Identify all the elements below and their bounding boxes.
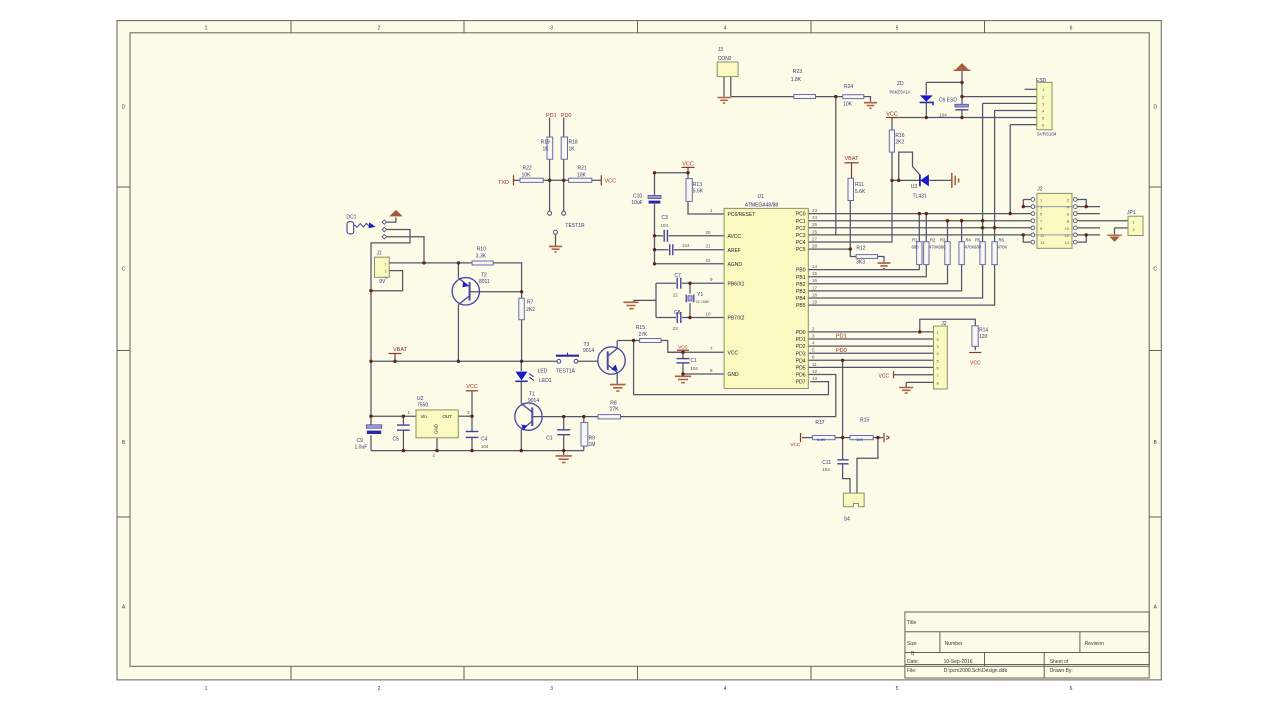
svg-text:1M: 1M [589,442,596,448]
svg-text:R14: R14 [979,328,988,334]
svg-text:R19: R19 [541,140,550,146]
svg-text:PB4: PB4 [796,296,806,302]
svg-text:3: 3 [385,276,387,280]
svg-text:32.768K: 32.768K [696,300,711,304]
svg-text:PD2: PD2 [796,344,806,350]
svg-text:C10: C10 [633,193,642,199]
svg-text:P6KE6V1A: P6KE6V1A [890,89,911,94]
svg-text:C9: C9 [357,438,364,444]
svg-text:AGND: AGND [728,262,743,268]
svg-text:17: 17 [812,285,818,290]
svg-text:14: 14 [1065,240,1070,245]
svg-text:C5: C5 [393,436,400,442]
svg-text:3K3: 3K3 [856,260,865,266]
svg-text:104: 104 [939,112,947,117]
svg-text:12: 12 [1065,233,1070,238]
svg-text:TEST1A: TEST1A [556,368,576,374]
svg-text:4: 4 [724,686,727,692]
svg-text:CON2: CON2 [718,56,732,62]
svg-text:PD7: PD7 [796,380,806,386]
svg-text:AVCC: AVCC [728,234,742,240]
svg-text:TEST1R: TEST1R [565,223,585,229]
svg-text:SVRS104: SVRS104 [1037,132,1057,137]
svg-text:R15: R15 [860,418,869,424]
svg-text:Y1: Y1 [697,292,703,298]
svg-text:U1: U1 [758,194,765,200]
svg-text:16: 16 [812,278,818,283]
svg-text:VCC: VCC [886,112,898,118]
svg-text:S4: S4 [844,516,850,522]
svg-text:R18: R18 [569,140,578,146]
svg-text:VBAT: VBAT [393,347,408,353]
svg-text:PB7/X2: PB7/X2 [728,316,745,322]
svg-text:GND: GND [434,423,439,434]
svg-text:PD6: PD6 [796,373,806,379]
svg-text:6: 6 [1070,686,1073,692]
svg-text:27K: 27K [610,407,620,413]
svg-text:VCC: VCC [682,162,694,168]
svg-text:PC4: PC4 [796,240,806,246]
svg-text:DC1: DC1 [346,214,356,220]
svg-text:Sheet of: Sheet of [1050,659,1069,665]
svg-text:VCC: VCC [678,344,688,349]
svg-text:15: 15 [812,271,818,276]
svg-text:5.6K: 5.6K [855,189,866,195]
svg-text:104: 104 [661,223,669,228]
svg-text:10uF: 10uF [631,200,642,206]
svg-text:14: 14 [812,264,818,269]
svg-text:13: 13 [1040,240,1045,245]
svg-text:22: 22 [673,292,679,297]
svg-text:D: D [122,105,126,111]
svg-text:104: 104 [481,444,489,449]
svg-text:R13: R13 [693,182,702,188]
svg-text:J2: J2 [941,321,947,327]
svg-text:R4: R4 [966,237,972,242]
svg-text:R21: R21 [578,166,587,172]
svg-text:25: 25 [812,222,818,227]
svg-text:1.8K: 1.8K [791,77,802,83]
svg-text:PB6/X1: PB6/X1 [728,281,745,287]
svg-text:Size: Size [907,641,917,647]
svg-text:PC5: PC5 [796,247,806,253]
svg-text:PD5: PD5 [796,366,806,372]
svg-text:R16: R16 [895,133,904,139]
svg-text:2K2: 2K2 [526,307,535,313]
svg-text:VCC: VCC [728,350,739,356]
svg-text:1: 1 [205,686,208,692]
svg-text:5.6K: 5.6K [693,189,704,195]
svg-text:10: 10 [706,312,712,317]
svg-text:R24: R24 [844,84,853,90]
svg-text:22: 22 [673,326,679,331]
svg-text:R23: R23 [793,69,802,75]
svg-text:LED: LED [538,368,548,374]
svg-text:TL431: TL431 [913,194,927,200]
svg-text:VCC: VCC [466,384,478,390]
svg-text:22: 22 [706,258,712,263]
svg-text:3.3K: 3.3K [476,254,487,260]
svg-text:18: 18 [812,292,818,297]
svg-text:D: D [1153,105,1157,111]
svg-text:1K: 1K [543,147,550,153]
svg-text:C1: C1 [690,358,697,364]
svg-text:R2: R2 [930,237,936,242]
svg-text:2K2: 2K2 [895,140,904,146]
svg-text:PC3: PC3 [796,233,806,239]
svg-text:VCC: VCC [605,179,617,185]
svg-text:4: 4 [724,26,727,32]
svg-text:ATMEGA48/88: ATMEGA48/88 [745,202,778,208]
svg-text:PC6/RESET: PC6/RESET [728,212,756,218]
svg-text:7550: 7550 [417,402,428,408]
svg-text:Drawn By:: Drawn By: [1050,668,1073,674]
svg-text:PC0: PC0 [796,212,806,218]
svg-text:PD1: PD1 [836,334,847,340]
svg-text:C1: C1 [546,436,553,442]
svg-text:ESD: ESD [1036,78,1047,84]
svg-text:8011: 8011 [479,279,490,285]
svg-text:10-Sep-2016: 10-Sep-2016 [944,659,973,665]
svg-text:C6 ESD: C6 ESD [939,97,957,103]
svg-text:Title: Title [907,620,916,626]
svg-text:21: 21 [706,244,712,249]
svg-text:470K: 470K [998,245,1008,250]
svg-text:10: 10 [1065,226,1070,231]
svg-text:PC2: PC2 [796,226,806,232]
svg-text:104: 104 [690,366,698,371]
svg-text:T1: T1 [529,392,535,398]
svg-text:R15: R15 [636,325,645,331]
svg-text:5: 5 [896,686,899,692]
svg-text:20: 20 [706,230,712,235]
svg-text:PD0: PD0 [796,330,806,336]
svg-text:2: 2 [378,686,381,692]
svg-text:3: 3 [550,26,553,32]
svg-text:10K: 10K [856,437,863,442]
svg-text:11: 11 [812,362,817,367]
svg-text:U2: U2 [417,396,424,402]
svg-text:104: 104 [822,467,830,472]
svg-text:PB2: PB2 [796,282,806,288]
svg-text:6: 6 [1070,26,1073,32]
svg-text:R6: R6 [999,237,1005,242]
svg-text:C4: C4 [481,436,488,442]
svg-text:C11: C11 [822,460,831,466]
svg-text:120: 120 [979,334,988,340]
svg-text:104: 104 [682,243,690,248]
svg-text:1K: 1K [569,147,576,153]
svg-text:3: 3 [550,686,553,692]
svg-text:R11: R11 [855,182,864,188]
svg-text:R1: R1 [912,237,918,242]
svg-text:JP1: JP1 [1127,210,1136,216]
svg-text:Vin: Vin [421,414,428,419]
svg-text:10K: 10K [843,101,853,107]
svg-text:R22: R22 [523,166,532,172]
svg-text:U3: U3 [911,184,918,190]
svg-text:C: C [1153,267,1157,273]
svg-text:Revision: Revision [1085,641,1104,647]
svg-text:28: 28 [812,244,818,249]
svg-text:TXD: TXD [498,180,509,186]
svg-text:C: C [122,267,126,273]
svg-text:ZD: ZD [897,81,904,87]
svg-text:T2: T2 [481,272,487,278]
svg-text:Number: Number [945,641,963,647]
svg-text:13: 13 [812,376,818,381]
svg-text:2: 2 [378,26,381,32]
svg-text:10K: 10K [577,173,587,179]
svg-text:R7: R7 [527,300,534,306]
svg-text:R12: R12 [856,246,865,252]
svg-text:R9: R9 [589,436,596,442]
svg-text:PD0: PD0 [561,113,572,119]
svg-text:C7: C7 [675,273,682,279]
svg-text:23: 23 [812,208,818,213]
svg-text:680: 680 [912,245,920,250]
svg-text:C8: C8 [674,310,681,316]
svg-text:PB5: PB5 [796,303,806,309]
svg-text:680: 680 [974,245,982,250]
svg-text:J2: J2 [1037,186,1043,192]
svg-text:AREF: AREF [728,248,741,254]
svg-text:VCC: VCC [879,373,890,379]
svg-text:D:\pcm2000.Sch\Design.ddb: D:\pcm2000.Sch\Design.ddb [944,668,1008,674]
svg-text:6.8K: 6.8K [817,437,826,442]
svg-text:File:: File: [907,668,916,674]
svg-text:VCC: VCC [970,361,981,367]
svg-text:9014: 9014 [583,348,594,354]
svg-text:VCC: VCC [791,442,801,447]
svg-text:C3: C3 [662,215,669,221]
svg-text:27K: 27K [639,332,649,338]
svg-text:J3: J3 [718,47,724,53]
svg-text:R17: R17 [815,420,824,426]
svg-text:PB3: PB3 [796,289,806,295]
svg-text:PC1: PC1 [796,219,806,225]
svg-text:12: 12 [812,369,818,374]
svg-text:27: 27 [812,236,818,241]
svg-text:1.0uF: 1.0uF [355,445,368,451]
svg-text:LED1: LED1 [539,378,552,384]
svg-text:470K: 470K [965,245,975,250]
svg-text:PB0: PB0 [796,268,806,274]
svg-text:PD4: PD4 [796,358,806,364]
svg-text:10K: 10K [522,173,532,179]
svg-text:5: 5 [896,26,899,32]
svg-text:PD1: PD1 [796,337,806,343]
svg-text:PD1: PD1 [546,113,557,119]
svg-text:GND: GND [728,372,740,378]
svg-text:2: 2 [385,269,387,273]
svg-text:9014: 9014 [528,398,539,404]
svg-text:VBAT: VBAT [845,156,860,162]
svg-text:1: 1 [385,262,387,266]
svg-text:J1: J1 [377,250,383,256]
svg-text:PD0: PD0 [836,348,847,354]
svg-text:PB1: PB1 [796,275,806,281]
svg-text:19: 19 [812,300,818,305]
svg-text:OUT: OUT [443,414,453,419]
svg-text:R5: R5 [975,237,981,242]
svg-text:R10: R10 [477,246,486,252]
svg-text:R3: R3 [940,237,946,242]
svg-text:PD3: PD3 [796,351,806,357]
svg-text:470K: 470K [929,245,939,250]
svg-text:Date:: Date: [907,659,919,665]
svg-text:26: 26 [812,229,818,234]
svg-text:1: 1 [205,26,208,32]
svg-text:24: 24 [812,215,818,220]
svg-text:680: 680 [939,245,947,250]
